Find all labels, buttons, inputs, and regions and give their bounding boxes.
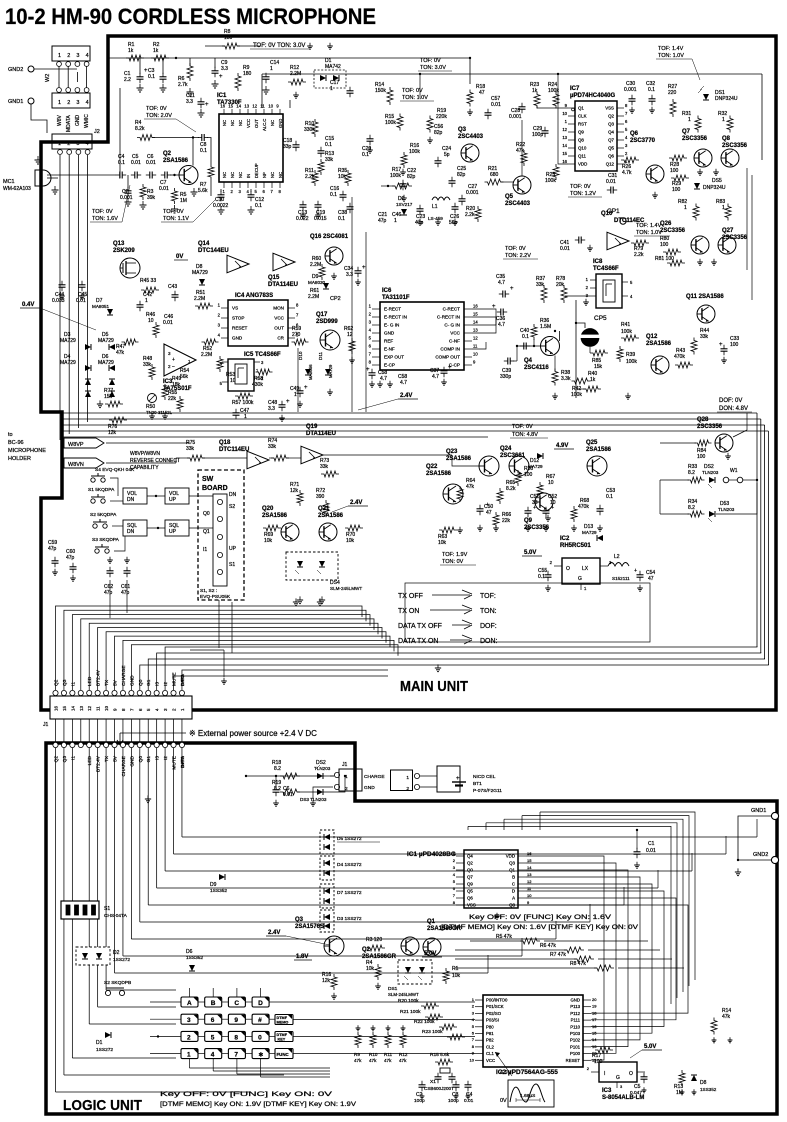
battery BT1 NICD [437,766,460,792]
svg-text:Q5: Q5 [505,194,514,200]
svg-text:P01/SCK: P01/SCK [486,1004,504,1009]
svg-text:0.01: 0.01 [464,1098,474,1104]
svg-text:22k: 22k [168,396,177,402]
svg-text:Q0: Q0 [203,511,210,517]
svg-text:0V: 0V [500,1098,507,1104]
svg-text:OUT: OUT [274,326,284,331]
svg-text:2: 2 [67,100,70,106]
wire top right rail [420,73,762,75]
svg-text:IC5 TC4S66F: IC5 TC4S66F [244,352,281,358]
svg-text:1SS352: 1SS352 [700,1087,717,1092]
svg-text:10-2 HM-90 CORDLESS MICROPHO: 10-2 HM-90 CORDLESS MICROPHONE [5,4,376,29]
svg-text:BT2.4V: BT2.4V [96,669,102,686]
svg-text:Q3: Q3 [458,127,467,133]
svg-text:DATA TX ON: DATA TX ON [398,638,438,645]
svg-text:Q11: Q11 [578,154,587,159]
svg-text:8.2: 8.2 [688,505,695,511]
svg-text:47k: 47k [369,1058,377,1063]
svg-text:P110: P110 [570,1024,580,1029]
svg-text:R11: R11 [384,1052,393,1057]
svg-text:14: 14 [236,104,241,109]
svg-text:2SA1586: 2SA1586 [586,447,612,453]
svg-text:TON: 1.1V: TON: 1.1V [163,216,189,222]
svg-text:0.01: 0.01 [146,160,156,166]
IC2 uPD7564AG-555 [483,995,583,1067]
svg-text:DNP324U: DNP324U [715,96,738,102]
grounds Q20 [299,596,301,600]
svg-text:5p: 5p [444,152,450,158]
svg-text:1SV217: 1SV217 [396,202,413,207]
svg-text:NC: NC [230,172,235,178]
svg-text:DN: DN [127,497,135,503]
svg-text:430k: 430k [252,382,263,388]
svg-text:IN: IN [246,174,251,178]
svg-text:D5 1SS272: D5 1SS272 [337,836,362,842]
svg-text:3: 3 [76,141,79,147]
svg-text:1: 1 [688,117,691,123]
wire Q5 collector [521,120,523,176]
svg-text:8: 8 [234,1034,238,1041]
svg-text:16: 16 [592,1024,597,1029]
crystal X1 [440,1068,450,1073]
svg-text:COMP OUT: COMP OUT [435,355,460,360]
svg-text:NC: NC [230,120,235,126]
svg-text:2.2M: 2.2M [310,262,321,268]
svg-text:MA729: MA729 [60,338,76,344]
svg-text:0.01: 0.01 [163,320,173,326]
svg-text:TOF:: TOF: [480,593,496,600]
wire vertical 298 [297,348,299,412]
connector W8VN tag [64,458,104,468]
svg-text:15: 15 [527,858,532,863]
svg-text:G: G [578,576,582,582]
svg-text:0.1: 0.1 [538,574,545,580]
svg-text:TX OFF: TX OFF [398,593,423,600]
svg-text:15: 15 [473,312,478,317]
svg-text:1: 1 [330,86,333,92]
capacitor C62 [107,570,114,572]
svg-text:MA729: MA729 [192,270,208,276]
svg-text:3.3: 3.3 [268,406,275,412]
svg-text:Q9: Q9 [578,130,584,135]
svg-text:5.0V: 5.0V [424,951,436,957]
svg-text:6: 6 [211,1017,215,1024]
svg-text:100: 100 [730,342,739,348]
svg-text:SLM-245LMWT: SLM-245LMWT [388,992,419,997]
svg-text:3: 3 [76,53,79,59]
right nest verticals upper [746,168,748,270]
wire R18 top [469,58,471,84]
svg-text:2SA1576S: 2SA1576S [295,924,324,930]
svg-text:19: 19 [592,1004,597,1009]
svg-text:NICD CEL: NICD CEL [473,774,496,780]
svg-text:2SC3356: 2SC3356 [524,525,550,531]
svg-text:RH5RC501: RH5RC501 [560,543,591,549]
svg-text:C-CP: C-CP [449,363,460,368]
diode D3 1SS272 dashed [320,910,334,932]
svg-text:R1: R1 [452,966,459,972]
svg-text:NC: NC [270,172,275,178]
svg-text:DN: DN [229,492,237,498]
box SQL DN [123,520,147,536]
IC3 TA75S01F opamp [164,344,196,376]
svg-text:S4 EVQ-QKH 04K: S4 EVQ-QKH 04K [95,467,135,473]
svg-text:I: I [604,1071,605,1077]
svg-text:0.001: 0.001 [466,190,479,196]
svg-text:Q2: Q2 [608,114,614,119]
svg-text:12: 12 [252,104,257,109]
svg-text:2SC3356: 2SC3356 [722,143,748,149]
grounds Q26 Q27 [699,259,701,262]
svg-text:Q1: Q1 [203,529,210,535]
svg-text:GND: GND [232,336,243,341]
svg-text:15: 15 [592,1031,597,1036]
svg-text:KEY: KEY [278,1038,286,1042]
svg-text:D4 1SS272: D4 1SS272 [337,862,362,868]
svg-text:10: 10 [548,480,554,486]
svg-text:NP: NP [262,172,267,178]
ground MC1 [54,186,56,190]
svg-text:13: 13 [562,135,567,140]
svg-text:0V: 0V [176,254,183,260]
svg-text:W1: W1 [730,468,738,474]
svg-text:3: 3 [76,100,79,106]
svg-text:56k: 56k [180,374,189,380]
svg-text:+: + [486,502,489,508]
svg-text:LED: LED [87,755,93,765]
svg-text:2: 2 [406,786,409,792]
svg-text:11: 11 [96,706,101,711]
svg-text:1: 1 [345,774,348,780]
svg-text:DS5: DS5 [712,178,722,184]
ground Q9 [547,515,549,518]
svg-text:R45 33: R45 33 [140,278,156,284]
svg-text:NC: NC [270,120,275,126]
svg-text:3.3k: 3.3k [561,376,571,382]
bus wires horizontal [62,412,757,414]
svg-text:Q7: Q7 [467,875,473,880]
svg-text:1.8V: 1.8V [296,954,308,960]
svg-text:R15 5.6k: R15 5.6k [430,1052,450,1058]
svg-text:0.01: 0.01 [283,792,293,798]
svg-text:MA729: MA729 [98,360,114,366]
svg-text:Q22: Q22 [426,464,438,470]
svg-text:0.1: 0.1 [338,216,345,222]
svg-text:180: 180 [243,71,252,77]
wire fan J1 nest bottom [140,664,769,690]
svg-text:2SC4403: 2SC4403 [458,134,484,140]
svg-text:4.7: 4.7 [498,322,505,328]
svg-text:39k: 39k [147,195,156,201]
svg-text:TOF: 0V TON: 3.0V: TOF: 0V TON: 3.0V [253,43,305,49]
svg-text:D10: D10 [298,351,303,360]
svg-text:DOF: 0V: DOF: 0V [719,398,742,404]
svg-text:E-RECT: E-RECT [384,307,401,312]
svg-text:GND2: GND2 [8,67,23,73]
ground Q28 [727,453,729,456]
svg-text:9: 9 [234,1017,238,1024]
svg-text:0.1: 0.1 [255,203,262,209]
svg-text:I3: I3 [155,682,161,686]
svg-text:100k: 100k [390,173,401,179]
svg-text:REF: REF [384,339,393,344]
svg-text:µPD74HC4040G: µPD74HC4040G [570,93,615,99]
svg-text:0: 0 [258,1034,262,1041]
svg-text:UP: UP [169,529,177,535]
svg-text:Key OFF: 0V [FUNC] Key ON: 1: Key OFF: 0V [FUNC] Key ON: 1.6V [469,915,611,921]
DIP switch S1 CHS-04TA [61,901,99,919]
svg-text:Q4: Q4 [524,358,533,364]
svg-text:2SC3356: 2SC3356 [660,228,686,234]
svg-text:DON:: DON: [480,638,498,645]
svg-text:L1: L1 [432,204,438,210]
svg-text:+: + [510,286,514,292]
svg-text:TX: TX [104,679,110,686]
svg-text:82p: 82p [434,130,443,136]
wires SW [147,495,165,497]
svg-text:LX: LX [582,566,589,572]
svg-text:SLM-245LMWT: SLM-245LMWT [330,586,362,591]
svg-text:W8VP: W8VP [68,442,84,448]
svg-text:2SA1586: 2SA1586 [446,456,472,462]
svg-text:1: 1 [58,100,61,106]
svg-text:MC1: MC1 [3,179,15,185]
svg-text:DATA: DATA [180,673,186,686]
svg-text:100k: 100k [545,178,556,184]
IC3 S-8054ALB-LM [599,1062,637,1082]
svg-text:12k: 12k [322,978,331,984]
svg-text:1k: 1k [128,48,134,54]
svg-text:12: 12 [527,879,532,884]
svg-text:10k: 10k [438,540,447,546]
svg-text:Q9: Q9 [524,518,533,524]
svg-text:DTC144EU: DTC144EU [198,248,229,254]
svg-text:D6: D6 [186,949,193,955]
svg-text:Q6: Q6 [608,154,614,159]
svg-text:C: C [512,882,515,887]
svg-text:13: 13 [473,328,478,333]
svg-text:5: 5 [211,1034,215,1041]
svg-text:16: 16 [527,851,532,856]
wire Q28 collector [733,413,747,437]
diode D4 1SS272 dashed [320,856,334,880]
svg-text:33k: 33k [320,464,329,470]
svg-text:2SA1586: 2SA1586 [426,471,452,477]
svg-text:Q8: Q8 [578,138,584,143]
svg-text:IC8: IC8 [593,259,603,265]
svg-text:R12: R12 [399,1052,408,1057]
svg-text:82p: 82p [457,172,466,178]
svg-text:∗: ∗ [258,1052,264,1059]
svg-text:8.2: 8.2 [274,766,281,772]
svg-text:GND2: GND2 [753,852,768,858]
svg-text:GND: GND [364,785,375,791]
svg-text:8.2k: 8.2k [135,126,145,132]
svg-text:2SA1586: 2SA1586 [318,513,344,519]
svg-text:2SD999: 2SD999 [316,319,338,325]
svg-text:[DTMF MEMO] Key ON: 1.6V [DTM: [DTMF MEMO] Key ON: 1.6V [DTMF KEY] Key … [441,925,638,931]
svg-text:1: 1 [58,53,61,59]
svg-text:TOF: 0V: TOF: 0V [92,209,113,215]
svg-text:G1: G1 [146,756,152,763]
svg-text:TOF: 0V: TOF: 0V [512,424,533,430]
svg-text:33k: 33k [700,334,709,340]
junction dot keypad [157,1035,159,1037]
svg-text:MA8030: MA8030 [308,280,326,285]
svg-text:R21 100k: R21 100k [400,1009,421,1015]
key DTMF MEMO [275,1015,293,1025]
svg-text:TX: TX [104,755,110,762]
svg-text:100k: 100k [409,149,420,155]
svg-text:R9: R9 [354,1052,360,1057]
svg-text:Q20: Q20 [262,506,274,512]
svg-text:GND: GND [278,119,283,128]
logic top nest wires [540,812,695,980]
svg-text:Q19: Q19 [306,424,318,430]
svg-text:1M: 1M [180,198,187,204]
svg-text:D8: D8 [700,1080,707,1086]
svg-text:1: 1 [394,218,397,224]
svg-text:J2: J2 [94,129,100,135]
svg-text:33k: 33k [268,444,277,450]
svg-text:Q1: Q1 [427,919,436,925]
svg-text:D7 1SS272: D7 1SS272 [337,890,362,896]
svg-text:47k: 47k [399,1058,407,1063]
svg-text:0.01: 0.01 [560,246,570,252]
svg-text:IC2: IC2 [560,536,570,542]
svg-text:MA729: MA729 [328,364,333,378]
ground C3 [162,84,164,88]
svg-text:CSB600J200T: CSB600J200T [424,1086,454,1091]
svg-text:Q10: Q10 [601,211,613,217]
svg-text:2SA1586: 2SA1586 [262,513,288,519]
svg-text:DTMF: DTMF [277,1033,288,1037]
microphone MC1 [35,170,51,186]
svg-text:0.1: 0.1 [648,87,655,93]
svg-text:P-07S/F2G11: P-07S/F2G11 [473,788,502,794]
svg-text:Q0: Q0 [138,679,144,686]
svg-text:TON: 4.8V: TON: 4.8V [512,432,538,438]
svg-text:CHARGE: CHARGE [364,774,385,780]
svg-text:1k: 1k [590,377,596,383]
svg-text:10: 10 [470,1057,475,1062]
ground fan [223,678,225,681]
svg-text:J1: J1 [342,762,348,768]
svg-text:MA8056: MA8056 [308,364,313,380]
svg-text:11: 11 [473,344,478,349]
svg-text:100k: 100k [385,120,396,126]
svg-text:14: 14 [592,1037,597,1042]
svg-text:TON: 1.0V: TON: 1.0V [402,95,428,101]
key DTMF KEY [275,1032,293,1042]
logic unit border [46,743,777,1114]
svg-text:TON: 1.2V: TON: 1.2V [570,191,596,197]
main unit border [41,36,776,710]
ground logic2 [312,800,314,803]
svg-text:CHS-04TA: CHS-04TA [104,913,128,919]
GND1 terminal [28,98,34,104]
svg-text:C: C [234,1000,239,1007]
svg-text:LOGIC UNIT: LOGIC UNIT [63,1097,142,1114]
svg-text:IC6: IC6 [382,288,392,294]
svg-text:Q3: Q3 [608,122,614,127]
svg-text:J1: J1 [43,722,49,728]
svg-text:3.3: 3.3 [186,99,193,105]
svg-text:330p: 330p [500,374,511,380]
svg-text:LED: LED [87,676,93,686]
svg-text:Q4: Q4 [608,130,614,135]
resistors R9-R12 47k [355,1032,361,1048]
svg-text:GND: GND [75,115,81,127]
connector W2 upper [52,46,90,61]
connector 2pin battery [391,770,413,791]
svg-text:16: 16 [562,159,567,164]
box VOL UP [165,488,189,504]
svg-text:47: 47 [486,510,492,516]
svg-text:Q2: Q2 [163,151,172,157]
svg-text:RESET: RESET [566,1058,581,1063]
svg-text:8.2: 8.2 [274,786,281,792]
svg-text:R8 47k: R8 47k [570,961,586,967]
svg-text:R41: R41 [621,322,630,328]
svg-text:10k: 10k [452,973,461,979]
svg-text:VSS: VSS [467,903,476,908]
svg-text:IC1: IC1 [217,93,227,99]
svg-text:20: 20 [592,997,597,1002]
svg-text:2.7k: 2.7k [178,82,188,88]
svg-text:P111: P111 [571,1018,581,1023]
svg-text:LS-459: LS-459 [428,216,443,221]
keypad row wires [150,1001,181,1003]
svg-text:Q3: Q3 [62,756,68,763]
svg-text:DTMF: DTMF [277,1016,288,1020]
resistor R7 [208,164,214,180]
svg-text:DTA114EU: DTA114EU [306,431,336,437]
svg-text:UP: UP [229,546,237,552]
svg-text:GND: GND [384,331,395,336]
svg-text:470k: 470k [674,354,685,360]
svg-text:Q14: Q14 [198,241,210,247]
svg-text:12k: 12k [290,488,299,494]
svg-text:D2: D2 [113,950,120,956]
diode DS3 TLN203 logic [317,789,323,795]
svg-text:Q7: Q7 [682,129,691,135]
svg-text:SW: SW [202,476,214,483]
connector J1 main unit [50,696,192,719]
svg-text:1: 1 [684,205,687,211]
bus wires right verticals [756,413,758,647]
svg-text:5.0V: 5.0V [644,1044,656,1050]
svg-text:2: 2 [67,53,70,59]
transistor Q9 2SC3356 [535,493,553,511]
svg-text:1.68µS: 1.68µS [520,1093,535,1099]
svg-text:13: 13 [592,1044,597,1049]
svg-text:MAIN UNIT: MAIN UNIT [400,678,468,695]
svg-text:CL2: CL2 [486,1044,494,1049]
svg-text:MA742: MA742 [325,64,341,70]
logic left wire bundle [55,748,57,1092]
svg-text:0.001: 0.001 [509,114,522,120]
svg-text:Q17: Q17 [316,312,328,318]
svg-text:2.2k: 2.2k [465,212,475,218]
svg-text:12: 12 [562,127,567,132]
svg-text:E-CP: E-CP [384,363,395,368]
svg-text:L2: L2 [614,554,620,560]
svg-text:GND1: GND1 [751,808,766,814]
svg-text:BC-96: BC-96 [8,440,24,446]
wire top rail [119,88,121,178]
svg-text:33k: 33k [143,362,152,368]
